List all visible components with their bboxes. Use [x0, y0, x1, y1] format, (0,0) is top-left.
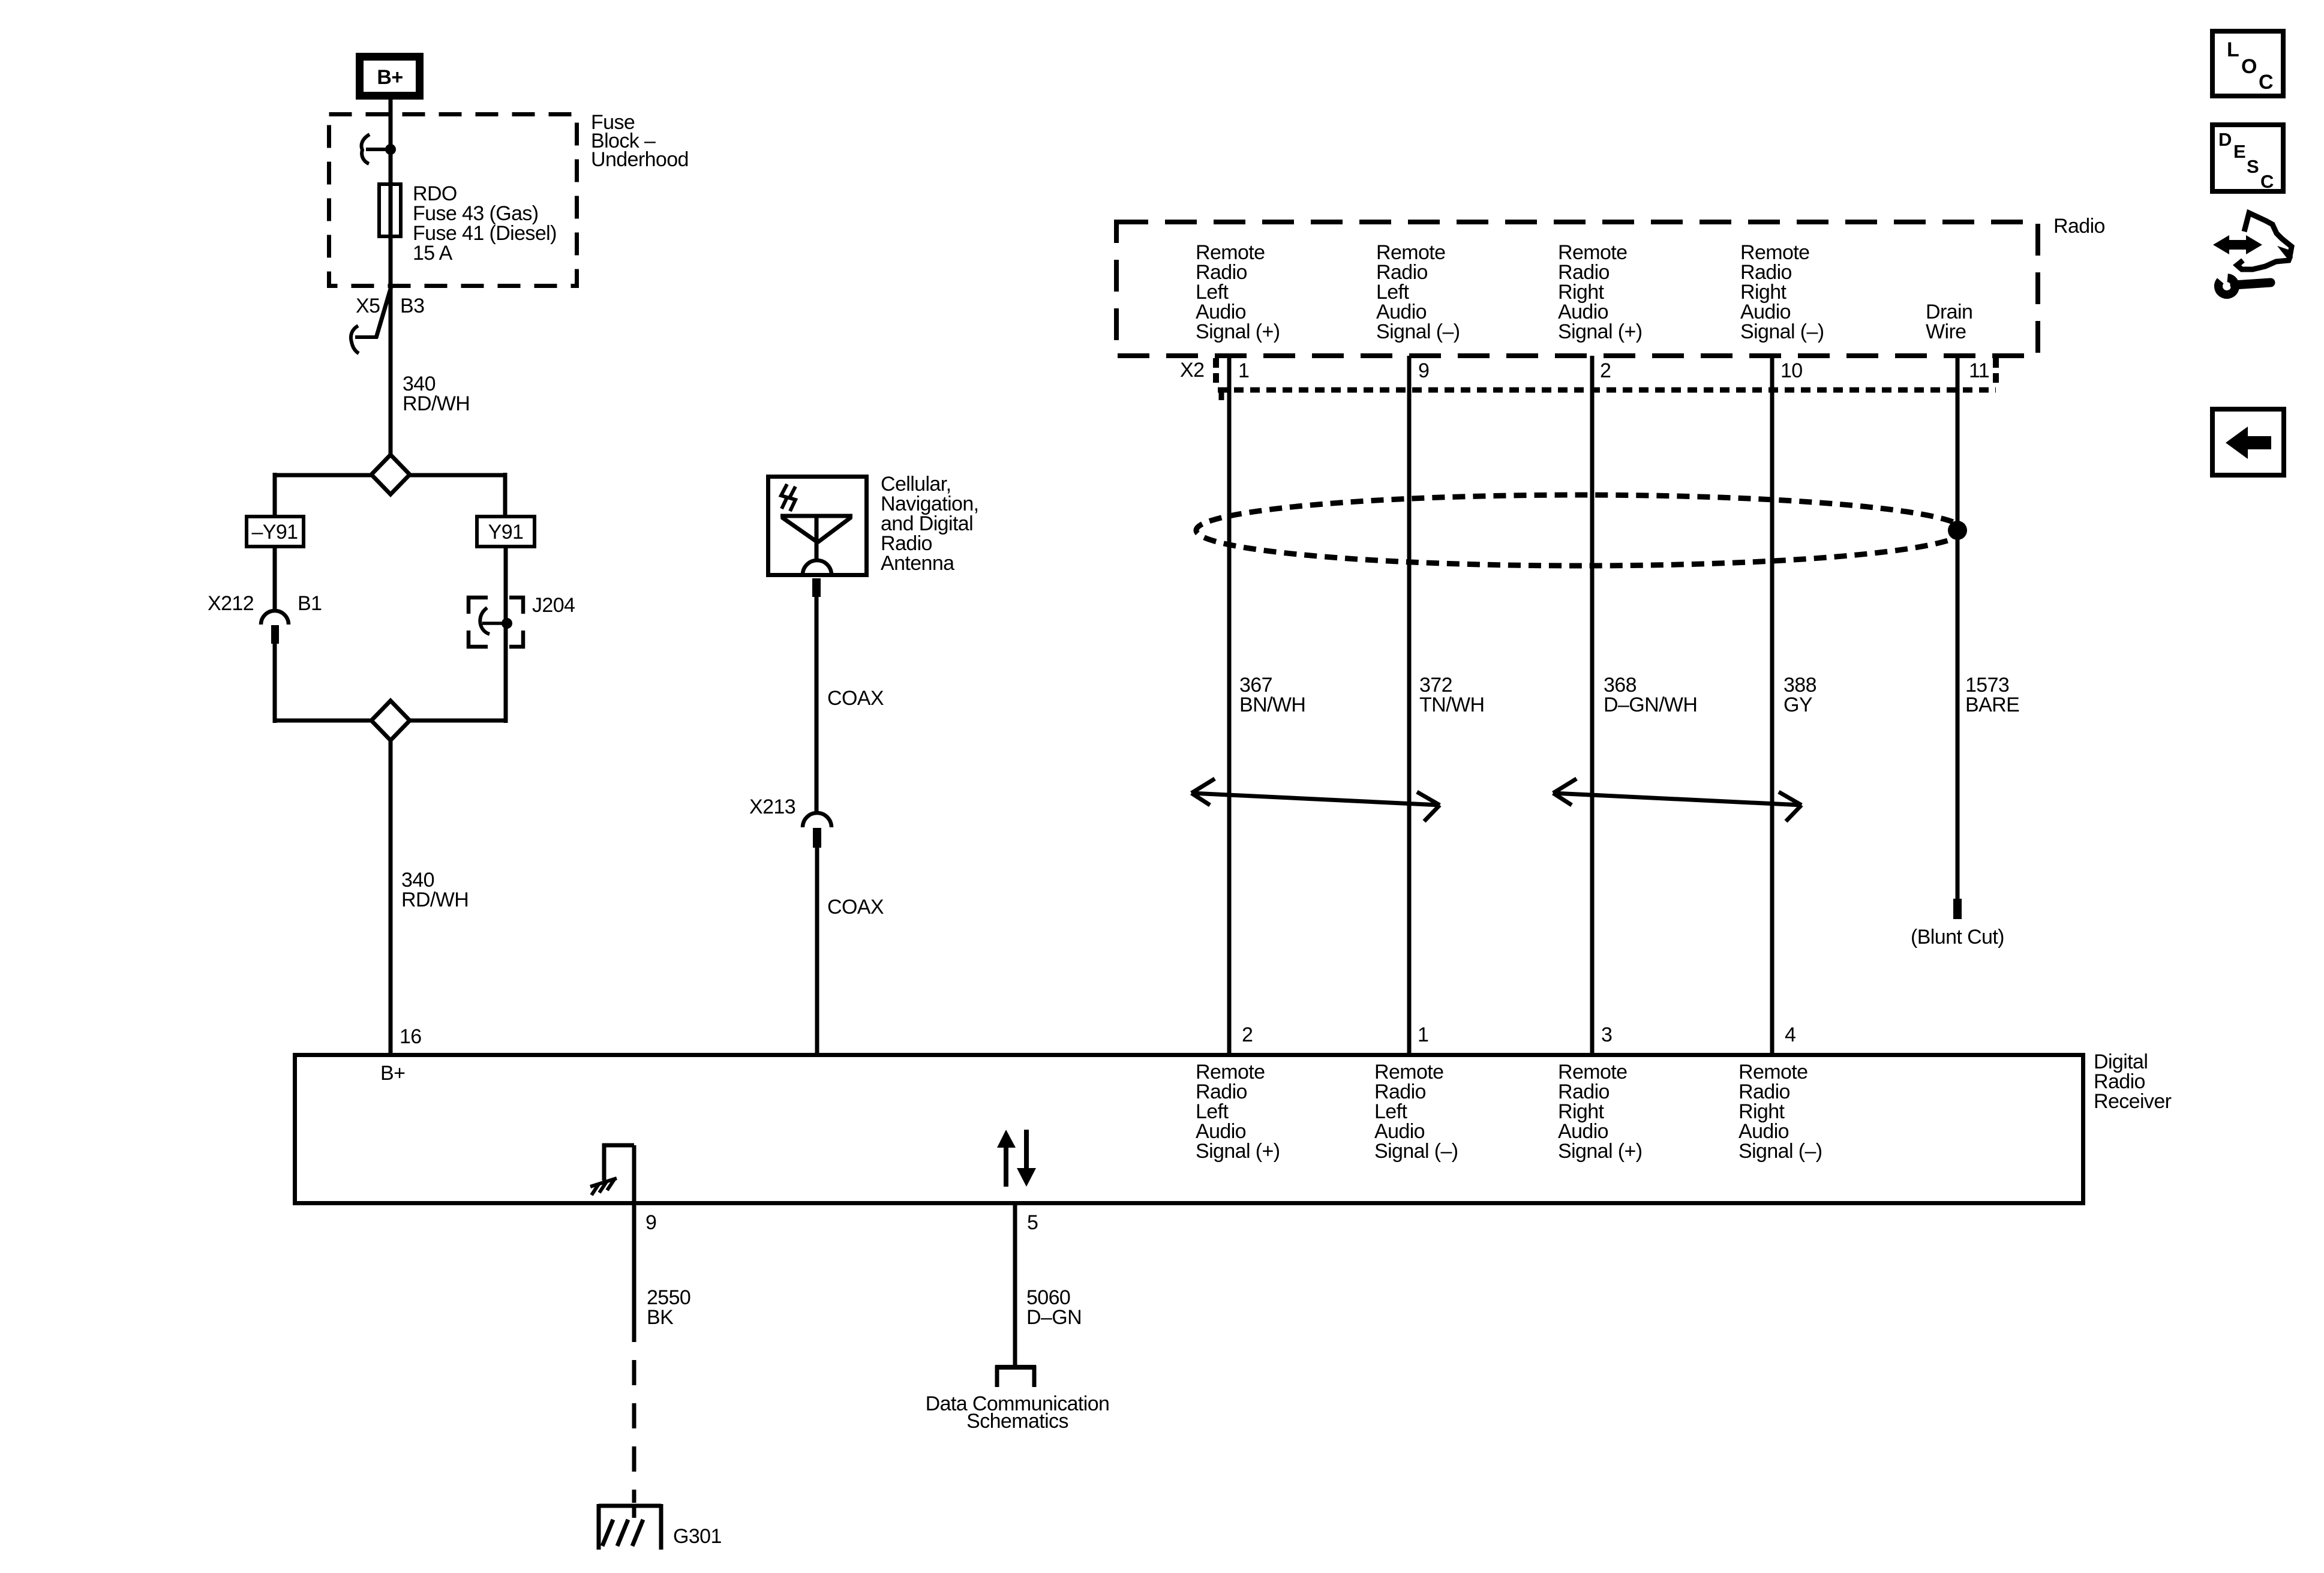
svg-text:10: 10: [1780, 359, 1803, 382]
svg-text:1: 1: [1238, 359, 1249, 382]
svg-text:D–GN/WH: D–GN/WH: [1604, 694, 1697, 716]
svg-text:2: 2: [1600, 359, 1611, 382]
svg-text:TN/WH: TN/WH: [1419, 694, 1484, 716]
svg-text:Receiver: Receiver: [2094, 1090, 2172, 1113]
svg-text:Signal (–): Signal (–): [1740, 320, 1824, 343]
svg-text:Signal (–): Signal (–): [1374, 1140, 1458, 1163]
svg-text:4: 4: [1785, 1023, 1795, 1046]
svg-text:O: O: [2241, 55, 2257, 78]
svg-text:9: 9: [645, 1211, 656, 1234]
svg-text:Signal (–): Signal (–): [1376, 320, 1460, 343]
svg-text:9: 9: [1418, 359, 1429, 382]
svg-text:Signal (+): Signal (+): [1558, 320, 1642, 343]
svg-text:Signal (+): Signal (+): [1196, 320, 1280, 343]
svg-text:16: 16: [400, 1025, 422, 1048]
svg-text:BK: BK: [647, 1306, 674, 1329]
svg-text:RD/WH: RD/WH: [401, 888, 469, 911]
svg-text:Signal (–): Signal (–): [1739, 1140, 1822, 1163]
svg-text:(Blunt Cut): (Blunt Cut): [1911, 926, 2004, 948]
svg-text:Wire: Wire: [1926, 320, 1966, 343]
svg-text:Underhood: Underhood: [591, 148, 689, 171]
svg-text:–Y91: –Y91: [251, 521, 298, 544]
svg-text:L: L: [2227, 38, 2239, 61]
svg-text:C: C: [2259, 71, 2273, 94]
svg-text:GY: GY: [1783, 694, 1812, 716]
svg-text:Schematics: Schematics: [966, 1410, 1068, 1433]
svg-text:BN/WH: BN/WH: [1239, 694, 1305, 716]
svg-text:Antenna: Antenna: [881, 552, 954, 575]
svg-text:15 A: 15 A: [413, 242, 453, 265]
svg-text:1: 1: [1418, 1023, 1428, 1046]
svg-text:B1: B1: [298, 592, 322, 615]
svg-text:X5: X5: [356, 295, 380, 317]
svg-text:Y91: Y91: [488, 521, 524, 544]
svg-text:11: 11: [1969, 359, 1989, 382]
svg-text:S: S: [2247, 156, 2259, 177]
svg-text:5: 5: [1027, 1211, 1038, 1234]
svg-text:D–GN: D–GN: [1026, 1306, 1082, 1329]
svg-text:Radio: Radio: [2053, 215, 2105, 238]
svg-text:B3: B3: [400, 295, 424, 317]
svg-text:X2: X2: [1180, 359, 1204, 382]
svg-text:J204: J204: [532, 594, 575, 617]
svg-text:X212: X212: [208, 592, 254, 615]
svg-text:D: D: [2218, 129, 2232, 150]
svg-text:E: E: [2233, 141, 2245, 162]
svg-text:G301: G301: [673, 1525, 722, 1548]
svg-text:Signal (+): Signal (+): [1558, 1140, 1642, 1163]
svg-text:X213: X213: [749, 795, 795, 818]
svg-text:COAX: COAX: [827, 687, 884, 710]
svg-text:B+: B+: [380, 1062, 405, 1085]
svg-text:C: C: [2260, 171, 2274, 192]
svg-text:B+: B+: [377, 66, 403, 89]
svg-text:Signal (+): Signal (+): [1196, 1140, 1280, 1163]
svg-text:3: 3: [1601, 1023, 1612, 1046]
svg-text:BARE: BARE: [1965, 694, 2019, 716]
svg-text:2: 2: [1242, 1023, 1253, 1046]
svg-text:RD/WH: RD/WH: [403, 392, 470, 415]
svg-text:COAX: COAX: [827, 896, 884, 918]
